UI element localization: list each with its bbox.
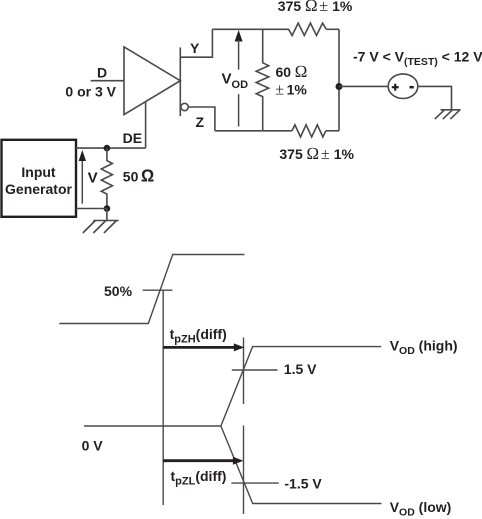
svg-text:1.5 V: 1.5 V <box>284 361 317 377</box>
svg-text:tpZL(diff): tpZL(diff) <box>171 468 227 488</box>
svg-text:Ω: Ω <box>141 165 154 185</box>
V arrow <box>81 159 83 204</box>
waveform V_OD low <box>221 426 382 504</box>
svg-text:VOD: VOD <box>222 71 249 92</box>
svg-text:±1%: ±1% <box>275 81 307 98</box>
-1.5 V tick <box>231 482 278 484</box>
waveform V_OD high <box>221 347 381 426</box>
resistor 50 ohm <box>101 148 112 208</box>
resistor 375 ohm top <box>289 23 327 35</box>
wire bottom rail <box>215 130 292 132</box>
wire generator top to DE <box>76 147 146 149</box>
wire DE <box>145 101 147 148</box>
svg-text:V: V <box>88 169 98 186</box>
arrow t_pZH(diff) <box>163 346 236 349</box>
svg-text:D: D <box>97 65 107 81</box>
ground (generator) <box>106 209 108 221</box>
inverting bubble Z output <box>181 103 188 110</box>
wire generator bottom <box>76 208 107 210</box>
resistor 60 ohm <box>256 29 269 131</box>
svg-text:-7 V < V(TEST) < 12 V: -7 V < V(TEST) < 12 V <box>353 49 482 69</box>
driver output bar <box>179 47 181 116</box>
wire Z <box>188 107 215 131</box>
svg-text:Generator: Generator <box>5 181 72 197</box>
svg-text:375Ω±1%: 375Ω±1% <box>278 0 353 15</box>
waveform 0 V line <box>84 425 221 427</box>
svg-text:-1.5 V: -1.5 V <box>284 476 322 492</box>
resistor 375 ohm bottom <box>292 125 326 137</box>
reference line 2 lower <box>243 426 245 515</box>
svg-text:tpZH(diff): tpZH(diff) <box>170 326 227 346</box>
svg-text:VOD (low): VOD (low) <box>390 499 452 519</box>
svg-text:0 or 3 V: 0 or 3 V <box>65 84 116 100</box>
ground (V test) <box>441 109 461 111</box>
svg-text:Input: Input <box>21 164 56 180</box>
wire Y <box>180 29 212 57</box>
svg-text:DE: DE <box>123 130 142 146</box>
svg-text:60Ω: 60Ω <box>276 62 308 81</box>
voltage source V(TEST) <box>388 74 418 99</box>
svg-text:VOD (high): VOD (high) <box>390 337 458 357</box>
svg-text:0 V: 0 V <box>82 438 104 454</box>
wire D input <box>91 80 124 82</box>
1.5 V tick <box>232 369 278 371</box>
svg-text:50%: 50% <box>104 283 133 299</box>
Input Generator box <box>2 140 77 217</box>
arrow t_pZL(diff) <box>163 459 235 462</box>
node junction top of 50 ohm <box>104 145 111 152</box>
waveform input DE <box>59 255 244 324</box>
wire node to source <box>339 85 388 87</box>
node V(TEST) junction <box>336 83 343 90</box>
svg-text:375Ω±1%: 375Ω±1% <box>279 144 354 163</box>
svg-text:Y: Y <box>190 40 200 56</box>
svg-text:Z: Z <box>196 114 205 130</box>
wire source to ground <box>418 86 452 109</box>
reference line 1 <box>162 290 164 505</box>
50% tick <box>143 289 173 291</box>
wire right rail <box>338 29 340 131</box>
wire top rail <box>212 28 289 30</box>
V_OD arrow <box>235 30 243 42</box>
svg-text:50: 50 <box>123 168 139 184</box>
reference line 2 upper <box>243 338 245 405</box>
node junction bottom of 50 ohm <box>104 205 111 212</box>
op-amp driver triangle <box>124 47 180 115</box>
